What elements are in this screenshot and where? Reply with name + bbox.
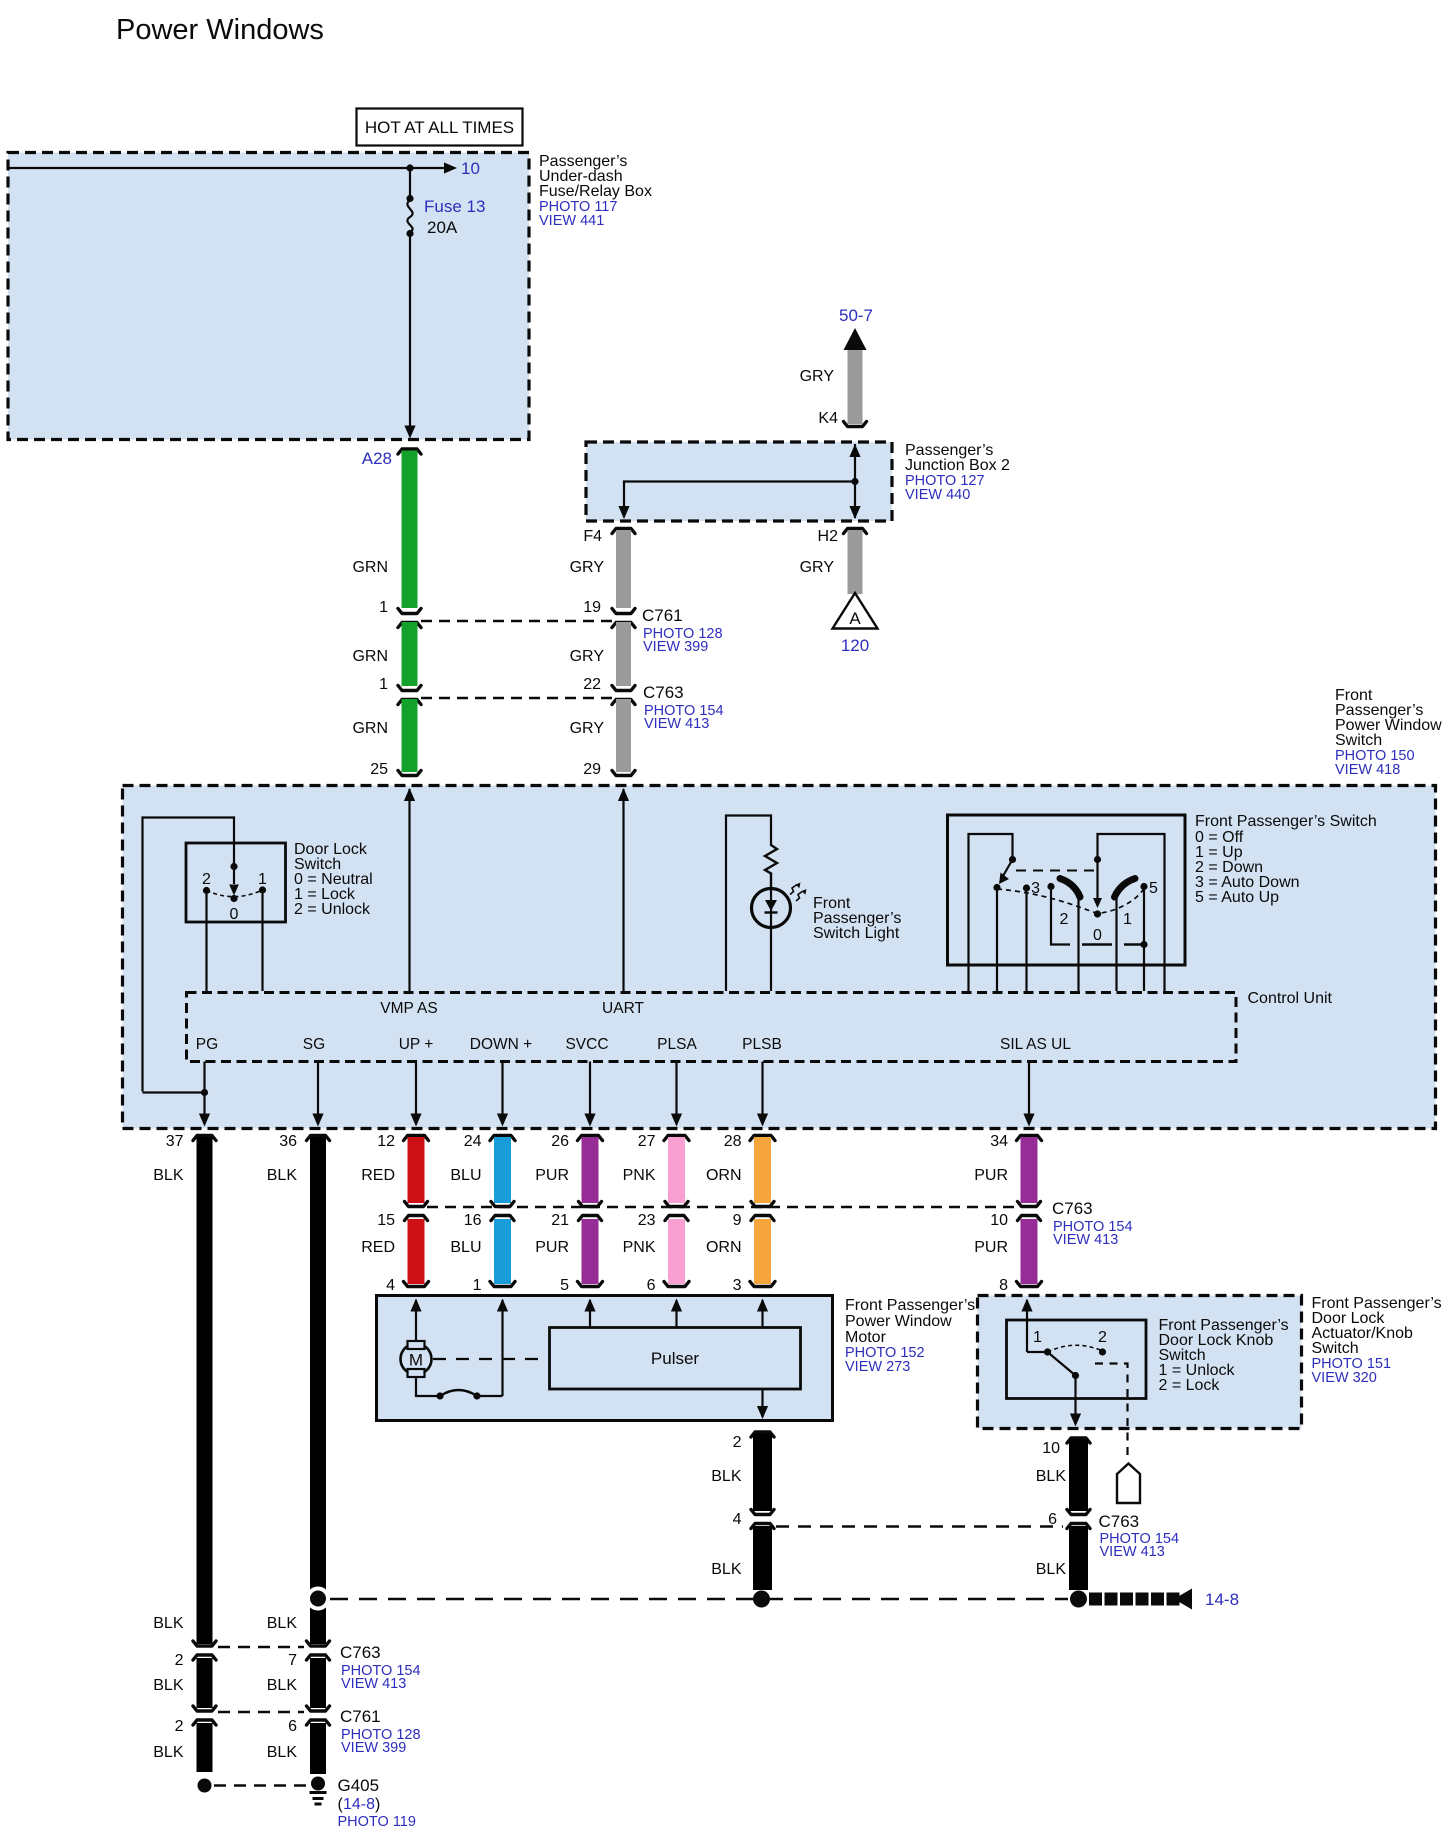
- wire to fuse: [409, 168, 411, 198]
- knob contact 2 node: [1099, 1348, 1106, 1355]
- svg-text:2: 2: [175, 1718, 184, 1735]
- knob travel arc: [1048, 1345, 1103, 1352]
- svg-text:RED: RED: [361, 1239, 395, 1256]
- svg-text:G405: G405: [338, 1776, 380, 1795]
- svg-text:GRN: GRN: [352, 559, 388, 576]
- svg-text:BLK: BLK: [711, 1468, 742, 1485]
- svg-text:SVCC: SVCC: [565, 1036, 608, 1053]
- svg-text:BLK: BLK: [1036, 1468, 1067, 1485]
- SG C761 connector: [307, 1706, 330, 1711]
- pin 4 arrow: [410, 1299, 421, 1312]
- C761 dashed connector line: [421, 620, 612, 622]
- svg-text:2: 2: [733, 1434, 742, 1451]
- svg-text:C761: C761: [340, 1707, 381, 1726]
- purple SVCC wire: [578, 1136, 603, 1141]
- lamp wire through: [770, 889, 772, 991]
- left pivot node: [1009, 856, 1016, 863]
- mech coupling dashed: [1016, 870, 1095, 872]
- svg-text:C763: C763: [1052, 1199, 1093, 1218]
- svg-text:VMP AS: VMP AS: [380, 1000, 437, 1017]
- svg-text:10: 10: [1042, 1440, 1060, 1457]
- arrow to pivot: [229, 885, 239, 896]
- pin 5 arrow: [584, 1299, 595, 1312]
- svg-text:C763: C763: [1099, 1512, 1140, 1531]
- SG black wire seg3: [310, 1723, 326, 1774]
- svg-text:PHOTO 119: PHOTO 119: [338, 1814, 416, 1830]
- gray wire K4: [848, 350, 863, 424]
- arrow to F4: [618, 506, 629, 519]
- arc right leg: [1115, 897, 1117, 991]
- junction box 2 (Passenger's): [586, 442, 892, 521]
- svg-text:27: 27: [638, 1133, 656, 1150]
- svg-text:M: M: [409, 1351, 423, 1370]
- right arm arrowhead: [1093, 898, 1102, 908]
- connector C763 on gray wire: [612, 686, 635, 691]
- svg-text:A28: A28: [362, 449, 392, 468]
- svg-text:4: 4: [733, 1511, 742, 1528]
- svg-text:GRY: GRY: [800, 559, 835, 576]
- PG C761 connector: [193, 1706, 216, 1711]
- svg-text:BLK: BLK: [267, 1677, 298, 1694]
- knob switch link: [1027, 1351, 1044, 1353]
- svg-text:1: 1: [473, 1277, 482, 1294]
- svg-text:6: 6: [647, 1277, 656, 1294]
- pulser U2 box: [550, 1328, 801, 1390]
- connector cap pin 29: [612, 771, 635, 776]
- svg-text:26: 26: [551, 1133, 569, 1150]
- SG C763 connector: [307, 1641, 330, 1646]
- svg-text:Front Passenger’s: Front Passenger’s: [845, 1297, 975, 1314]
- PG arrow: [199, 1114, 210, 1127]
- pin 10 arrow: [444, 162, 457, 173]
- pivot node: [230, 895, 237, 902]
- svg-text:19: 19: [583, 599, 601, 616]
- knob arm: [1048, 1352, 1076, 1376]
- svg-text:22: 22: [583, 676, 601, 693]
- contact 2 wire: [205, 894, 207, 991]
- svg-text:UART: UART: [602, 1000, 644, 1017]
- 14-8 thick dashed lead: [1089, 1593, 1102, 1606]
- svg-text:VIEW 440: VIEW 440: [905, 487, 970, 503]
- svg-text:BLU: BLU: [450, 1239, 481, 1256]
- fuse/relay box (Passenger's Under-dash): [8, 153, 529, 440]
- svg-text:Power Window: Power Window: [845, 1313, 952, 1330]
- svg-text:Junction Box 2: Junction Box 2: [905, 457, 1010, 474]
- svg-text:GRY: GRY: [570, 648, 605, 665]
- svg-text:23: 23: [638, 1212, 656, 1229]
- C763 dashed line (pg-sg): [218, 1646, 304, 1648]
- off-page arrow up: [844, 328, 867, 350]
- bracket solid to node: [1124, 943, 1144, 945]
- junction node on bus: [406, 164, 413, 171]
- G405 ground node: [311, 1777, 325, 1791]
- contact 2 node: [203, 887, 210, 894]
- svg-text:HOT AT ALL TIMES: HOT AT ALL TIMES: [365, 118, 514, 137]
- control unit box: [187, 993, 1237, 1062]
- svg-text:20A: 20A: [427, 218, 458, 237]
- contact 3 node: [1047, 883, 1054, 890]
- svg-text:VIEW 441: VIEW 441: [539, 213, 604, 229]
- pulser BLK wire clamp: [751, 1432, 774, 1437]
- knob contact 1 node: [1044, 1348, 1051, 1355]
- right pivot arm: [1096, 860, 1098, 903]
- connector C763 on green wire: [398, 686, 421, 691]
- svg-text:28: 28: [724, 1133, 742, 1150]
- svg-text:): ): [375, 1796, 380, 1813]
- svg-text:F4: F4: [583, 528, 602, 545]
- motor switch contact arc: [440, 1390, 477, 1396]
- pin 6 arrow: [671, 1299, 682, 1312]
- svg-text:C761: C761: [642, 606, 683, 625]
- svg-text:VIEW 399: VIEW 399: [643, 639, 708, 655]
- svg-text:1: 1: [1033, 1329, 1042, 1346]
- gray wire segment 2: [616, 622, 631, 686]
- svg-text:0: 0: [230, 906, 239, 923]
- svg-text:GRN: GRN: [352, 648, 388, 665]
- wire loop PG left: [143, 818, 235, 1092]
- front passenger's power window switch box: [123, 786, 1436, 1129]
- svg-text:Fuse/Relay Box: Fuse/Relay Box: [539, 183, 652, 200]
- orange PLSB wire: [750, 1136, 775, 1141]
- PG loop link: [143, 1091, 205, 1093]
- pulser BLK wire seg1: [753, 1434, 772, 1512]
- svg-text:PNK: PNK: [623, 1167, 656, 1184]
- PG black wire seg1: [197, 1137, 213, 1644]
- svg-text:BLK: BLK: [153, 1677, 184, 1694]
- contact node 2nd: [1023, 884, 1030, 891]
- arrow out pin 29: [618, 788, 629, 801]
- svg-text:8: 8: [999, 1277, 1008, 1294]
- svg-text:PUR: PUR: [974, 1239, 1008, 1256]
- pulser BLK wire seg2: [753, 1526, 772, 1590]
- contact left wire: [996, 891, 998, 991]
- door ground node: [1070, 1591, 1087, 1608]
- PG output line: [203, 1062, 205, 1125]
- svg-text:29: 29: [583, 761, 601, 778]
- lamp circle: [752, 889, 791, 928]
- green wire GRN segment 2: [402, 622, 418, 686]
- svg-text:1: 1: [379, 599, 388, 616]
- C763 dashed line (colored wires): [427, 1206, 1018, 1208]
- DOWN+ output line: [501, 1062, 503, 1125]
- svg-text:10: 10: [461, 159, 480, 178]
- door lock switch box: [186, 843, 286, 922]
- svg-text:PLSB: PLSB: [742, 1036, 782, 1053]
- svg-text:ORN: ORN: [706, 1167, 742, 1184]
- motor M1 brushes: [408, 1341, 425, 1349]
- LED rays: [790, 885, 797, 895]
- svg-text:H2: H2: [818, 528, 839, 545]
- arrow at A28 exit: [404, 426, 415, 439]
- svg-text:5: 5: [1149, 880, 1158, 897]
- svg-text:PUR: PUR: [535, 1239, 569, 1256]
- svg-text:Switch: Switch: [1312, 1340, 1359, 1357]
- svg-text:VIEW 413: VIEW 413: [1100, 1544, 1165, 1560]
- door lock travel arc: [207, 890, 263, 897]
- connector cap F4: [612, 529, 635, 534]
- svg-text:PLSA: PLSA: [657, 1036, 697, 1053]
- SVCC output line: [589, 1062, 591, 1125]
- svg-text:1: 1: [1123, 911, 1132, 928]
- internal junction node: [851, 478, 858, 485]
- C763 connector (door): [1067, 1510, 1090, 1515]
- svg-text:1: 1: [258, 871, 267, 888]
- svg-text:7: 7: [288, 1652, 297, 1669]
- svg-text:BLK: BLK: [267, 1744, 298, 1761]
- svg-text:A: A: [849, 609, 861, 628]
- svg-text:ORN: ORN: [706, 1239, 742, 1256]
- 14-8 arrow: [1174, 1589, 1192, 1610]
- svg-text:BLK: BLK: [153, 1744, 184, 1761]
- green wire GRN segment 3: [402, 699, 418, 772]
- C763 connector (motor): [751, 1510, 774, 1515]
- SG black wire seg2: [310, 1658, 326, 1708]
- svg-text:SIL AS UL: SIL AS UL: [1000, 1036, 1071, 1053]
- contact node left: [993, 884, 1000, 891]
- inner right U: [1098, 834, 1165, 991]
- UP+ output line: [415, 1062, 417, 1125]
- connector C761 on green wire: [398, 609, 421, 614]
- svg-text:2 = Lock: 2 = Lock: [1159, 1377, 1221, 1394]
- ground dashed link: [214, 1784, 309, 1786]
- key symbol: [1117, 1464, 1140, 1504]
- contact 1 wire: [261, 894, 263, 992]
- SG junction white ring: [306, 1587, 330, 1611]
- svg-text:BLK: BLK: [711, 1561, 742, 1578]
- inner left U: [969, 834, 1013, 991]
- switch light branch: [726, 816, 771, 992]
- svg-text:5: 5: [560, 1277, 569, 1294]
- PG end node: [198, 1779, 212, 1793]
- door BLK wire seg1: [1069, 1440, 1088, 1512]
- PG C763 connector: [193, 1641, 216, 1646]
- C763 dashed line (blk): [776, 1525, 1063, 1527]
- connector cap H2: [844, 529, 867, 534]
- knob pivot node: [1072, 1372, 1079, 1379]
- svg-text:C763: C763: [340, 1643, 381, 1662]
- svg-text:16: 16: [464, 1212, 482, 1229]
- pin 3 arrow: [757, 1299, 768, 1312]
- svg-text:PG: PG: [196, 1036, 218, 1053]
- blue DOWN+ wire: [490, 1136, 515, 1141]
- bracket dashes: [1082, 943, 1112, 945]
- SIL output line: [1028, 1062, 1030, 1125]
- svg-text:36: 36: [279, 1133, 297, 1150]
- SG output line: [317, 1062, 319, 1125]
- svg-text:Control Unit: Control Unit: [1248, 990, 1333, 1007]
- svg-text:Switch: Switch: [1335, 732, 1382, 749]
- UART line: [622, 789, 624, 991]
- right pivot node: [1094, 856, 1101, 863]
- power window motor box: [377, 1296, 833, 1421]
- wire bus to pin 10: [8, 167, 446, 169]
- svg-text:C763: C763: [643, 683, 684, 702]
- svg-text:24: 24: [464, 1133, 482, 1150]
- knob output line: [1074, 1376, 1076, 1425]
- arm line: [233, 867, 235, 885]
- PLSB output line: [761, 1062, 763, 1125]
- gray wire segment 3: [616, 699, 631, 772]
- fuse 13 element: [407, 200, 412, 232]
- svg-text:12: 12: [377, 1133, 395, 1150]
- contact 5 wire: [1143, 890, 1145, 945]
- PLSA output line: [675, 1062, 677, 1125]
- svg-text:2: 2: [202, 871, 211, 888]
- svg-text:Front Passenger’s Switch: Front Passenger’s Switch: [1195, 813, 1377, 830]
- svg-text:UP +: UP +: [399, 1036, 434, 1053]
- SG black wire seg1: [310, 1137, 326, 1644]
- svg-text:GRY: GRY: [800, 368, 835, 385]
- LED triangle: [765, 900, 777, 911]
- purple SIL wire: [1017, 1136, 1042, 1141]
- svg-text:9: 9: [733, 1212, 742, 1229]
- svg-text:14-8: 14-8: [1205, 1590, 1239, 1609]
- node door lock common: [230, 863, 237, 870]
- connector cap A28: [398, 449, 421, 454]
- door lock actuator box: [978, 1296, 1302, 1429]
- svg-text:Fuse 13: Fuse 13: [424, 197, 485, 216]
- motor-pulser dashed link: [433, 1358, 548, 1360]
- motor ground node: [753, 1591, 770, 1608]
- fuse F13 bottom node: [406, 230, 413, 237]
- left arm arrowhead: [999, 873, 1009, 885]
- svg-text:Pulser: Pulser: [651, 1349, 700, 1368]
- svg-text:14-8: 14-8: [343, 1796, 375, 1813]
- svg-text:BLK: BLK: [153, 1167, 184, 1184]
- thick contact arc left: [1060, 879, 1080, 898]
- arc left leg: [1077, 897, 1079, 991]
- pulser output line: [761, 1389, 763, 1417]
- arrow out pin 25: [404, 788, 415, 801]
- fuse F13 top node: [406, 195, 413, 202]
- motor bottom wire: [416, 1377, 437, 1396]
- G405 ground symbol: [310, 1791, 327, 1794]
- door BLK wire seg2: [1069, 1526, 1088, 1590]
- switch travel arc: [997, 889, 1144, 914]
- junction node 5: [1140, 941, 1147, 948]
- front passenger's switch box: [948, 815, 1186, 965]
- svg-text:BLK: BLK: [153, 1615, 184, 1632]
- svg-text:34: 34: [990, 1133, 1008, 1150]
- VMP AS line: [408, 789, 410, 991]
- svg-text:GRN: GRN: [352, 720, 388, 737]
- label box HOT AT ALL TIMES: [357, 109, 523, 146]
- SG junction node: [310, 1591, 326, 1607]
- svg-text:3: 3: [733, 1277, 742, 1294]
- svg-text:5 = Auto Up: 5 = Auto Up: [1195, 889, 1279, 906]
- svg-text:PNK: PNK: [623, 1239, 656, 1256]
- svg-text:2: 2: [175, 1652, 184, 1669]
- arrow out pin 8: [1021, 1299, 1032, 1312]
- motor switch wire: [480, 1395, 503, 1397]
- svg-text:Power Windows: Power Windows: [116, 14, 324, 46]
- left pivot arm: [1003, 860, 1013, 877]
- svg-text:120: 120: [841, 636, 869, 655]
- pulser output arrow: [757, 1406, 768, 1419]
- PG black wire seg2: [197, 1658, 213, 1708]
- svg-text:PUR: PUR: [535, 1167, 569, 1184]
- svg-text:RED: RED: [361, 1167, 395, 1184]
- svg-text:0: 0: [1093, 927, 1102, 944]
- knob switch supply line: [1026, 1300, 1028, 1352]
- svg-text:10: 10: [990, 1212, 1008, 1229]
- knob output arrow: [1070, 1414, 1081, 1427]
- svg-text:SG: SG: [303, 1036, 325, 1053]
- C763 dashed connector line: [421, 697, 612, 699]
- svg-text:25: 25: [370, 761, 388, 778]
- contact 5 node: [1140, 883, 1147, 890]
- gray wire H2: [848, 530, 863, 594]
- PG black wire seg3: [197, 1723, 213, 1772]
- motor switch node right: [473, 1392, 480, 1399]
- connector C761 on gray wire: [612, 609, 635, 614]
- svg-text:4: 4: [386, 1277, 395, 1294]
- svg-text:15: 15: [377, 1212, 395, 1229]
- svg-text:BLK: BLK: [1036, 1561, 1067, 1578]
- svg-text:VIEW 399: VIEW 399: [341, 1740, 406, 1756]
- contact 3 bracket: [1051, 890, 1070, 945]
- svg-text:VIEW 413: VIEW 413: [644, 716, 709, 732]
- svg-text:VIEW 273: VIEW 273: [845, 1359, 910, 1375]
- svg-text:VIEW 413: VIEW 413: [1053, 1232, 1118, 1248]
- contact 0 node: [1094, 910, 1101, 917]
- ground bus dashed line: [330, 1598, 1068, 1601]
- motor M1 circle: [401, 1344, 432, 1375]
- C761 dashed line (pg-sg): [218, 1711, 304, 1713]
- svg-text:VIEW 418: VIEW 418: [1335, 762, 1400, 778]
- resistor: [765, 845, 777, 889]
- green wire GRN segment 1: [402, 451, 418, 609]
- PG black wire top clamp: [193, 1136, 216, 1141]
- gray wire F4 segment 1: [616, 530, 631, 608]
- svg-text:K4: K4: [818, 410, 838, 427]
- internal wire K4 vertical: [854, 444, 856, 518]
- svg-text:2 = Unlock: 2 = Unlock: [294, 901, 371, 918]
- internal wire to F4: [624, 482, 855, 518]
- red UP+ wire: [404, 1136, 429, 1141]
- svg-text:6: 6: [288, 1718, 297, 1735]
- arrow into box at K4: [849, 444, 860, 457]
- door BLK wire clamp: [1067, 1438, 1090, 1443]
- motor switch node left: [436, 1392, 443, 1399]
- svg-text:37: 37: [166, 1133, 184, 1150]
- svg-text:2: 2: [1098, 1329, 1107, 1346]
- svg-text:DOWN +: DOWN +: [470, 1036, 532, 1053]
- svg-text:2: 2: [1060, 911, 1069, 928]
- wire fuse to A28: [409, 234, 411, 437]
- svg-text:BLK: BLK: [267, 1615, 298, 1632]
- knob-key dashed link: [1095, 1364, 1128, 1462]
- svg-text:GRY: GRY: [570, 720, 605, 737]
- svg-text:BLK: BLK: [267, 1167, 298, 1184]
- connector cap pin 25: [398, 771, 421, 776]
- pink PLSA wire: [664, 1136, 689, 1141]
- pin 1 arrow: [497, 1299, 508, 1312]
- svg-text:50-7: 50-7: [839, 306, 873, 325]
- PG junction node: [201, 1089, 208, 1096]
- svg-text:1: 1: [379, 676, 388, 693]
- svg-text:21: 21: [551, 1212, 569, 1229]
- ground symbol A: [833, 593, 878, 629]
- contact 2nd wire: [1025, 892, 1027, 992]
- arrow to H2: [849, 506, 860, 519]
- svg-text:VIEW 320: VIEW 320: [1312, 1370, 1377, 1386]
- svg-text:PUR: PUR: [974, 1167, 1008, 1184]
- door lock knob switch inner box: [1007, 1320, 1147, 1399]
- contact 1 node: [259, 886, 266, 893]
- connector cap K4: [844, 422, 867, 427]
- svg-text:Switch Light: Switch Light: [813, 925, 900, 942]
